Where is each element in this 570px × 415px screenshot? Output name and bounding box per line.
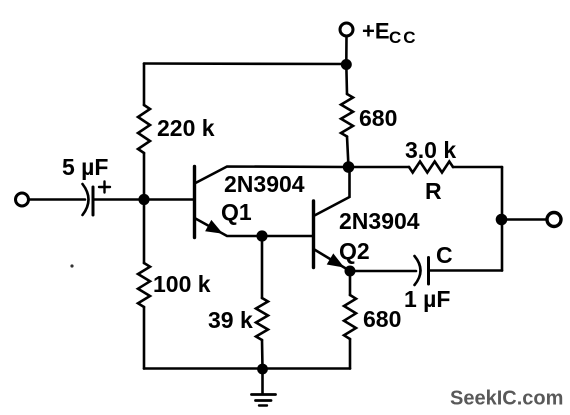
transistor Q1 collector	[195, 167, 349, 184]
svg-text:Q1: Q1	[221, 199, 252, 225]
transistor Q2 base bar	[312, 201, 315, 268]
wire Q2 emitter to 680 bottom	[349, 271, 352, 295]
capacitor 5uF straight plate	[92, 187, 95, 215]
wire left rail top segment	[143, 153, 146, 200]
node Ecc junction	[341, 59, 352, 70]
svg-text:2N3904: 2N3904	[224, 171, 305, 197]
wire 680 bottom to bottom rail	[349, 339, 352, 369]
input terminal	[16, 193, 29, 206]
wire Q1 base	[144, 198, 195, 201]
svg-text:680: 680	[359, 105, 397, 131]
node output junction	[496, 214, 508, 226]
node ground junction	[257, 364, 268, 375]
wire top rail	[144, 62, 346, 65]
wire input to capacitor	[29, 198, 85, 201]
resistor 220k	[138, 105, 150, 153]
svg-text:CC: CC	[389, 28, 418, 47]
wire Ecc terminal to rail	[345, 36, 348, 65]
wire bottom rail	[144, 367, 350, 370]
resistor R 3.0k	[409, 162, 453, 173]
node collector junction	[343, 161, 355, 173]
wire left rail lower segment	[143, 200, 146, 264]
svg-text:100 k: 100 k	[153, 271, 211, 297]
terminal +Ecc	[340, 23, 353, 36]
svg-text:39 k: 39 k	[208, 307, 253, 333]
node input junction	[138, 194, 149, 205]
output terminal	[547, 213, 561, 227]
svg-text:1 µF: 1 µF	[404, 286, 450, 312]
svg-text:R: R	[425, 178, 442, 204]
wire 39k to ground node	[261, 340, 264, 369]
transistor Q1 base bar	[193, 167, 196, 238]
resistor 39k	[256, 298, 268, 340]
capacitor C straight plate	[427, 258, 430, 285]
transistor Q1 emitter	[195, 218, 314, 236]
wire output node to terminal	[502, 218, 547, 221]
wire Q2 emitter to capacitor C	[350, 270, 416, 273]
svg-text:+E: +E	[362, 19, 390, 44]
wire right rail	[501, 167, 504, 271]
wire Q1 emitter node to 39k	[261, 236, 264, 298]
svg-text:Q2: Q2	[339, 238, 370, 264]
capacitor 5uF curved plate	[83, 184, 89, 215]
svg-text:220 k: 220 k	[157, 115, 215, 141]
ground	[252, 369, 276, 406]
svg-text:C: C	[436, 242, 453, 268]
wire R to right rail	[453, 166, 502, 169]
svg-text:5 µF: 5 µF	[62, 154, 108, 180]
transistor Q2 collector	[314, 167, 350, 216]
svg-text:3.0 k: 3.0 k	[405, 137, 456, 163]
capacitor 5uF polarity plus	[99, 182, 110, 193]
transistor Q2 emitter arrow	[328, 255, 342, 266]
svg-text:SeekIC.com: SeekIC.com	[450, 388, 563, 410]
wire Ecc node to 680 top	[345, 65, 348, 95]
wire capacitor to input node	[93, 198, 144, 201]
svg-text:2N3904: 2N3904	[339, 208, 420, 234]
svg-text:680: 680	[363, 306, 401, 332]
wire 100k to bottom corner	[143, 307, 146, 369]
resistor 680 bottom	[344, 295, 356, 339]
wire 680 top to collector node	[347, 137, 349, 168]
node Q1 emitter junction	[256, 230, 267, 241]
ink speck	[70, 264, 73, 267]
transistor Q2 emitter	[314, 249, 351, 271]
wire collector node to R	[349, 166, 410, 169]
transistor Q1 emitter arrow	[207, 222, 221, 233]
node Q2 emitter junction	[345, 266, 356, 277]
wire capacitor C to right rail	[429, 269, 503, 272]
capacitor C curved plate	[415, 256, 421, 285]
resistor 680 top	[341, 94, 353, 137]
wire 220k to top corner	[143, 64, 146, 106]
resistor 100k	[138, 263, 150, 307]
